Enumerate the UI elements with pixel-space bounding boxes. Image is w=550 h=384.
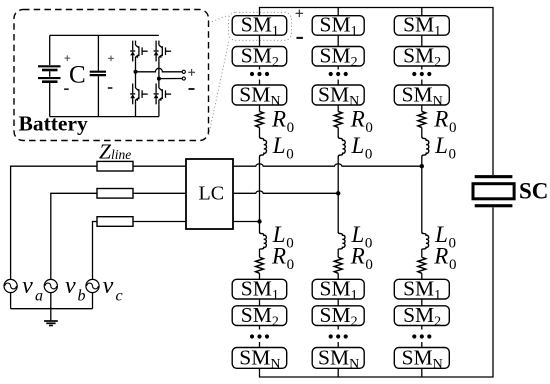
inductor L0 (col1 top arm) xyxy=(260,137,267,158)
wire bottom DC rail xyxy=(260,208,494,378)
svg-text:LC: LC xyxy=(199,183,225,205)
inductor L0 (col1 bottom arm) xyxy=(260,232,267,250)
wire column 2 vertical (arm midpoint) xyxy=(337,158,339,233)
wire SM1-SM2 (col1 top) xyxy=(259,35,261,46)
wire Zline b to LC xyxy=(133,192,186,194)
transistor Q1 (upper left IGBT with antiparallel diode) xyxy=(130,41,148,62)
wire above SMN (col3 bottom) xyxy=(421,342,423,348)
wire LC to phase leg 3 (hops over legs 1 and 2) xyxy=(233,164,422,166)
zoom indicator dotted box around SM1 xyxy=(229,12,292,40)
wire SM1-SM2 (col2 bottom) xyxy=(337,299,339,306)
node left leg midpoint xyxy=(134,70,138,74)
svg-text:Battery: Battery xyxy=(19,111,88,135)
wire column 1 vertical (arm midpoint) xyxy=(259,158,261,233)
resistor R0 (col2 bottom arm) xyxy=(334,257,342,273)
label - (SM1 terminal) xyxy=(296,37,303,39)
resistor R0 (col1 bottom arm) xyxy=(256,257,264,273)
submodule SM2 (col3 top) xyxy=(394,44,449,71)
submodule SM1 (col3 bottom) xyxy=(394,276,449,303)
wire R0 to SM1 (col2 bottom) xyxy=(337,273,339,279)
wire top rail stub (col2) xyxy=(337,8,339,16)
supercapacitor SC xyxy=(473,175,514,207)
zoom indicator dotted line lower xyxy=(209,41,229,136)
wire column 3 vertical (arm midpoint) xyxy=(421,158,423,233)
terminal - circle xyxy=(182,77,185,80)
wire top rail stub (col3) xyxy=(421,8,423,16)
wire Zline c to LC xyxy=(133,221,186,223)
ellipsis (col2 top) xyxy=(329,72,348,76)
wire below SM2 (col3 bottom) xyxy=(421,326,423,330)
submodule SM1 (col2 bottom) xyxy=(312,276,364,303)
node phase leg 3 midpoint xyxy=(420,164,424,168)
wire R0 to L0 (col1 top) xyxy=(259,128,261,137)
svg-text:SC: SC xyxy=(519,179,548,204)
AC source vb xyxy=(44,279,57,292)
AC source vc xyxy=(86,279,99,292)
wire SMN to bottom rail (col2) xyxy=(337,368,339,377)
label + (SM1 terminal) xyxy=(296,10,304,18)
wire below SM2 (col3 top) xyxy=(421,66,423,70)
wire below SM2 (col2 top) xyxy=(337,66,339,70)
node right leg midpoint xyxy=(157,77,161,81)
wire R0 to SM1 (col3 bottom) xyxy=(421,273,423,279)
wire above SMN (col1 top) xyxy=(259,80,261,86)
terminal + circle xyxy=(182,70,185,73)
transistor Q2 (lower left IGBT) xyxy=(130,84,148,105)
node phase leg 2 midpoint xyxy=(336,191,340,195)
submodule SM1 (col1 bottom) xyxy=(232,276,287,303)
transistor Q4 (lower right IGBT) xyxy=(154,84,172,105)
wire above SMN (col1 bottom) xyxy=(259,342,261,348)
capacitor C xyxy=(90,35,106,116)
impedance Zline phase c xyxy=(97,217,133,227)
wire left bridge leg middle xyxy=(135,61,137,83)
wire Zline a to LC xyxy=(133,165,186,167)
wire phase a source to Zline xyxy=(11,166,97,279)
wire SM1-SM2 (col2 top) xyxy=(337,35,339,46)
wire L0 to R0 (col2 bottom) xyxy=(337,250,339,258)
submodule SM2 (col1 bottom) xyxy=(232,303,287,330)
submodule SMN (col3 bottom) xyxy=(394,345,449,372)
submodule SM1 (col1 top) xyxy=(232,13,287,40)
resistor R0 (col2 top arm) xyxy=(334,112,342,128)
ellipsis (col2 bottom) xyxy=(329,334,348,338)
submodule SM1 (col3 top) xyxy=(394,13,449,40)
resistor R0 (col3 bottom arm) xyxy=(418,257,426,273)
wire battery bridge bottom rail xyxy=(50,116,159,118)
label - (capacitor) xyxy=(108,87,113,89)
wire above SMN (col2 top) xyxy=(337,80,339,86)
wire vb to neutral rail xyxy=(50,293,52,309)
node phase leg 1 midpoint xyxy=(257,219,261,223)
wire R0 to SM1 (col1 bottom) xyxy=(259,273,261,279)
inductor L0 (col2 top arm) xyxy=(338,137,345,158)
wire neutral rail xyxy=(11,308,93,310)
label - (battery) xyxy=(64,88,69,90)
wire phase c source to Zline xyxy=(93,222,98,280)
wire right bridge leg bottom xyxy=(158,104,160,116)
inductor L0 (col2 bottom arm) xyxy=(338,232,345,250)
wire R0 to L0 (col2 top) xyxy=(337,128,339,137)
wire R0 to L0 (col3 top) xyxy=(421,128,423,137)
zoom indicator dotted line upper xyxy=(209,15,229,23)
ellipsis (col3 top) xyxy=(412,72,431,76)
wire SMN to R0 (col3 top) xyxy=(421,105,423,112)
wire left bridge leg bottom xyxy=(135,104,137,116)
ground xyxy=(44,309,58,326)
wire LC to phase leg 2 (hops over leg 1) xyxy=(233,191,338,193)
svg-text:C: C xyxy=(69,62,86,89)
wire below SM2 (col2 bottom) xyxy=(337,326,339,330)
wire SM1-SM2 (col3 top) xyxy=(421,35,423,46)
transistor Q3 (upper right IGBT) xyxy=(154,41,172,62)
ellipsis (col3 bottom) xyxy=(412,334,431,338)
battery cell symbol xyxy=(38,35,61,116)
wire below SM2 (col1 top) xyxy=(259,66,261,70)
label - (battery output) xyxy=(189,88,195,90)
wire battery output - xyxy=(159,78,182,80)
inductor L0 (col3 bottom arm) xyxy=(422,232,429,250)
label + (battery output) xyxy=(188,69,195,76)
label + (capacitor) xyxy=(108,56,114,62)
ellipsis (col1 bottom) xyxy=(250,334,269,338)
wire va to neutral rail xyxy=(10,293,12,309)
wire SM1-SM2 (col1 bottom) xyxy=(259,299,261,306)
impedance Zline phase b xyxy=(97,189,133,199)
wire above SMN (col2 bottom) xyxy=(337,342,339,348)
wire below SM2 (col1 bottom) xyxy=(259,326,261,330)
wire top DC rail xyxy=(260,8,494,176)
submodule SMN (col1 bottom) xyxy=(232,345,287,372)
inductor L0 (col3 top arm) xyxy=(422,137,429,158)
submodule SM2 (col2 bottom) xyxy=(312,303,364,330)
wire SMN to bottom rail (col3) xyxy=(421,368,423,377)
wire SM1-SM2 (col3 bottom) xyxy=(421,299,423,306)
label + (battery) xyxy=(65,55,71,61)
ellipsis (col1 top) xyxy=(250,72,269,76)
wire L0 to R0 (col3 bottom) xyxy=(421,250,423,258)
submodule SM1 (col2 top) xyxy=(312,13,364,40)
submodule SMN (col3 top) xyxy=(394,83,449,110)
submodule SMN (col2 bottom) xyxy=(312,345,364,372)
resistor R0 (col1 top arm) xyxy=(256,112,264,128)
wire vc to neutral rail xyxy=(92,293,94,309)
wire battery bridge top rail xyxy=(50,34,159,36)
submodule SM2 (col1 top) xyxy=(232,44,287,71)
impedance Zline phase a xyxy=(97,161,133,171)
submodule SMN (col1 top) xyxy=(232,83,287,110)
submodule SM2 (col3 bottom) xyxy=(394,303,449,330)
resistor R0 (col3 top arm) xyxy=(418,112,426,128)
wire battery output + (hop over right leg) xyxy=(136,68,183,71)
wire right bridge leg middle xyxy=(158,61,160,83)
wire SMN to R0 (col2 top) xyxy=(337,105,339,112)
AC source va xyxy=(4,279,17,292)
submodule SM2 (col2 top) xyxy=(312,44,364,71)
wire phase b source to Zline xyxy=(51,193,97,279)
submodule SMN (col2 top) xyxy=(312,83,364,110)
wire SMN to R0 (col1 top) xyxy=(259,105,261,112)
battery enclosure (dashed box) xyxy=(14,10,209,141)
wire above SMN (col3 top) xyxy=(421,80,423,86)
wire LC to phase leg 1 xyxy=(233,221,260,223)
LC filter block xyxy=(186,159,233,229)
wire L0 to R0 (col1 bottom) xyxy=(259,250,261,258)
